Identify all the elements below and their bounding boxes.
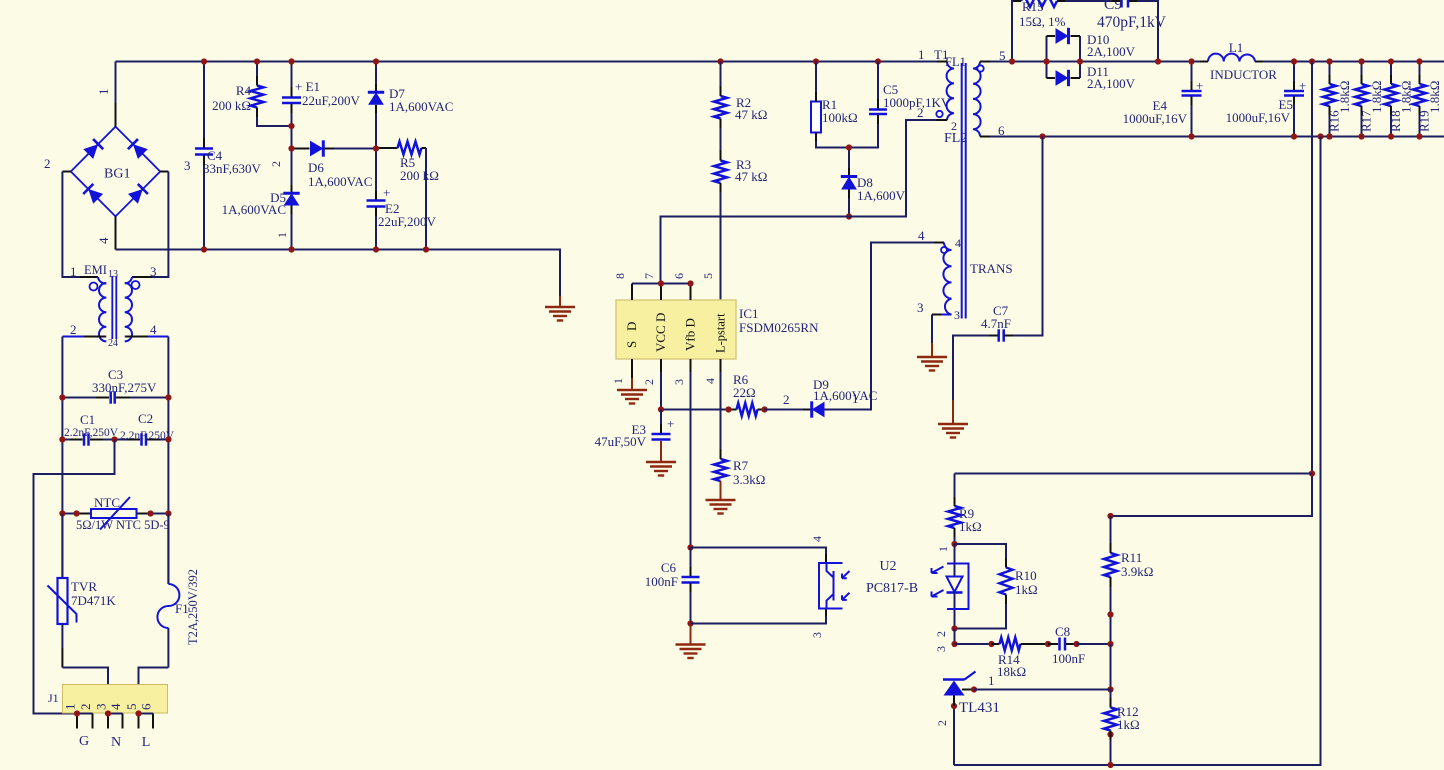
- svg-text:1kΩ: 1kΩ: [1015, 582, 1038, 597]
- svg-text:+: +: [1196, 78, 1203, 93]
- wire to opto collector: [691, 548, 827, 555]
- diode D11: [1047, 77, 1056, 79]
- wire TVR to J1 pin3: [62, 668, 108, 714]
- resistor R10: [1000, 568, 1013, 595]
- svg-text:S D: S D: [624, 322, 639, 348]
- svg-text:1A,600VAC: 1A,600VAC: [389, 99, 453, 114]
- capacitor E3: [660, 410, 662, 434]
- resistor R19: [1419, 62, 1421, 85]
- svg-text:47 kΩ: 47 kΩ: [735, 107, 767, 122]
- svg-text:L: L: [142, 735, 151, 750]
- svg-text:G: G: [79, 734, 89, 749]
- svg-text:1000uF,16V: 1000uF,16V: [1123, 111, 1188, 126]
- svg-text:+: +: [383, 185, 390, 200]
- capacitor C9: [1120, 0, 1123, 8]
- svg-text:1: 1: [936, 546, 950, 552]
- svg-text:1A,600VAC: 1A,600VAC: [813, 388, 877, 403]
- svg-text:TRANS: TRANS: [970, 261, 1013, 276]
- capacitor C3: [62, 397, 109, 399]
- transformer T1 core: [961, 63, 963, 319]
- svg-text:R7: R7: [733, 458, 749, 473]
- primary ground: [559, 296, 561, 307]
- svg-text:R4: R4: [236, 83, 252, 98]
- svg-text:+: +: [1299, 78, 1306, 93]
- svg-text:5: 5: [124, 704, 139, 711]
- svg-text:18kΩ: 18kΩ: [997, 664, 1026, 679]
- capacitor C8: [1048, 643, 1058, 645]
- svg-text:PC817-B: PC817-B: [866, 581, 918, 596]
- svg-text:100nF: 100nF: [1052, 651, 1085, 666]
- svg-text:8: 8: [613, 273, 627, 279]
- svg-text:200 kΩ: 200 kΩ: [212, 98, 251, 113]
- IC1 pin1 ground: [631, 378, 633, 390]
- svg-text:7: 7: [642, 273, 656, 279]
- wire TL431 cathode: [1110, 644, 1112, 690]
- wire F1 to J1 pin5: [139, 668, 169, 714]
- junction dots secondary rails: [1009, 58, 1015, 64]
- svg-text:N: N: [111, 735, 121, 750]
- svg-text:15Ω, 1%: 15Ω, 1%: [1019, 14, 1066, 29]
- svg-text:1.8kΩ: 1.8kΩ: [1427, 81, 1442, 113]
- svg-text:2: 2: [78, 704, 93, 711]
- svg-text:470pF,1kV: 470pF,1kV: [1097, 14, 1167, 31]
- svg-text:EMI: EMI: [84, 263, 107, 277]
- resistor R1: [815, 62, 817, 102]
- optocoupler U2 phototransistor: [825, 554, 827, 563]
- svg-text:R15: R15: [1022, 0, 1044, 14]
- svg-text:+: +: [667, 416, 674, 431]
- capacitor C7: [953, 336, 998, 401]
- svg-text:VCC D: VCC D: [653, 313, 668, 352]
- capacitor C2: [115, 439, 141, 441]
- C6 ground: [690, 625, 692, 645]
- J1 pin group N: [108, 713, 123, 715]
- wire drain net: [661, 120, 945, 284]
- svg-text:3: 3: [672, 379, 686, 385]
- connector J1: [63, 685, 168, 714]
- svg-text:22Ω: 22Ω: [733, 385, 756, 400]
- svg-text:1000uF,16V: 1000uF,16V: [1226, 110, 1291, 125]
- wire IC pin2 vcc: [660, 359, 662, 372]
- svg-text:2.2nF,250V: 2.2nF,250V: [64, 427, 119, 439]
- svg-text:FSDM0265RN: FSDM0265RN: [739, 320, 819, 335]
- wire BG1 to EMI right: [132, 172, 168, 278]
- BG1 pin stubs: [115, 103, 117, 127]
- svg-text:C8: C8: [1055, 624, 1070, 639]
- diode D8: [848, 148, 850, 169]
- wire IC pin3 feedback: [690, 359, 692, 372]
- svg-text:2: 2: [269, 161, 283, 167]
- wire left column: [61, 337, 63, 579]
- IC1 top pin link: [632, 283, 691, 285]
- svg-text:13: 13: [108, 269, 118, 280]
- transformer T1 primary winding FL1: [947, 62, 954, 121]
- resistor R11: [1110, 516, 1112, 553]
- fuse F1: [167, 514, 169, 585]
- C7 ground: [952, 400, 954, 424]
- resistor R5: [376, 147, 398, 149]
- svg-text:C1: C1: [80, 412, 95, 427]
- capacitor E5: [1293, 62, 1295, 91]
- svg-text:100nF: 100nF: [645, 574, 678, 589]
- svg-text:2: 2: [44, 156, 51, 171]
- svg-text:1: 1: [96, 89, 111, 96]
- svg-text:2: 2: [70, 322, 77, 337]
- svg-text:BG1: BG1: [104, 167, 130, 182]
- svg-text:2: 2: [642, 379, 656, 385]
- svg-text:100kΩ: 100kΩ: [822, 110, 858, 125]
- svg-text:6: 6: [672, 273, 686, 279]
- resistor R17: [1361, 62, 1363, 85]
- svg-text:4: 4: [918, 228, 925, 243]
- component pin stubs: [720, 86, 722, 96]
- svg-text:C6: C6: [661, 560, 677, 575]
- svg-text:IC1: IC1: [739, 306, 759, 321]
- wire vcc node: [661, 409, 729, 411]
- varistor TVR: [61, 514, 63, 579]
- svg-text:200 kΩ: 200 kΩ: [400, 168, 439, 183]
- svg-text:47uF,50V: 47uF,50V: [595, 434, 647, 449]
- diode D6: [292, 148, 310, 150]
- wire BG1 to EMI left: [62, 172, 98, 278]
- svg-text:1.8kΩ: 1.8kΩ: [1337, 81, 1352, 113]
- svg-text:D6: D6: [308, 160, 324, 175]
- svg-text:1kΩ: 1kΩ: [959, 519, 982, 534]
- svg-text:1: 1: [918, 47, 925, 62]
- svg-text:2: 2: [935, 720, 949, 726]
- wire R3 to IC pin5: [720, 183, 722, 300]
- wire R9 top: [955, 473, 1313, 475]
- svg-text:4: 4: [96, 237, 111, 244]
- capacitor C1: [62, 439, 82, 441]
- resistor R15: [1021, 0, 1057, 7]
- resistor R12: [1110, 690, 1112, 708]
- svg-text:3: 3: [954, 308, 960, 322]
- svg-text:TL431: TL431: [959, 700, 1000, 716]
- wire earth path: [34, 440, 115, 714]
- svg-text:1: 1: [63, 704, 78, 711]
- wire D9 to aux winding: [825, 243, 945, 410]
- svg-text:1A,600VAC: 1A,600VAC: [222, 202, 286, 217]
- wire to opto emitter: [691, 616, 827, 624]
- capacitor C5: [877, 62, 879, 109]
- resistor R7: [720, 359, 722, 372]
- svg-text:U2: U2: [879, 559, 896, 574]
- svg-text:6: 6: [139, 703, 154, 710]
- wire LED cathode node3: [954, 629, 956, 645]
- wire secondary bottom rail: [980, 136, 1444, 138]
- svg-text:2: 2: [951, 119, 957, 133]
- wire to R10: [955, 544, 1007, 568]
- J1 pin group G: [77, 713, 93, 715]
- resistor R18: [1390, 62, 1392, 85]
- diode D5: [291, 149, 293, 186]
- svg-text:L-pstart: L-pstart: [714, 313, 728, 353]
- svg-text:R11: R11: [1121, 550, 1142, 565]
- resistor R16: [1329, 62, 1331, 85]
- aux winding ground: [931, 315, 933, 344]
- ic U1 FSDM0265RN: [616, 300, 736, 359]
- svg-text:3: 3: [917, 300, 924, 315]
- svg-text:INDUCTOR: INDUCTOR: [1210, 67, 1277, 82]
- svg-text:5: 5: [701, 273, 715, 279]
- E3 ground: [660, 441, 662, 462]
- svg-text:1A,600VAC: 1A,600VAC: [308, 174, 372, 189]
- svg-text:3.3kΩ: 3.3kΩ: [733, 472, 765, 487]
- svg-text:1: 1: [988, 673, 995, 688]
- svg-text:1kΩ: 1kΩ: [1117, 717, 1140, 732]
- svg-text:22uF,200V: 22uF,200V: [378, 214, 436, 229]
- capacitor E1: [291, 62, 293, 97]
- diode D9: [765, 409, 804, 411]
- capacitor C4: [203, 62, 205, 148]
- svg-text:J1: J1: [48, 691, 59, 705]
- capacitor C6: [690, 548, 692, 577]
- svg-text:22uF,200V: 22uF,200V: [302, 93, 360, 108]
- svg-text:2A,100V: 2A,100V: [1087, 76, 1136, 91]
- svg-text:2: 2: [783, 392, 790, 407]
- svg-text:1: 1: [852, 391, 859, 406]
- svg-text:1: 1: [611, 378, 625, 384]
- svg-text:1: 1: [275, 232, 289, 238]
- resistor R6: [729, 409, 737, 411]
- diode D10: [1046, 36, 1048, 78]
- svg-text:2: 2: [934, 631, 948, 637]
- resistor R9: [954, 474, 956, 507]
- svg-text:330nF,275V: 330nF,275V: [92, 380, 157, 395]
- svg-text:4: 4: [108, 703, 123, 710]
- svg-text:+ E1: + E1: [295, 79, 320, 94]
- svg-text:1A,600V: 1A,600V: [857, 188, 906, 203]
- svg-text:NTC: NTC: [94, 495, 120, 510]
- svg-text:R10: R10: [1015, 568, 1037, 583]
- svg-text:33nF,630V: 33nF,630V: [203, 161, 261, 176]
- svg-text:3: 3: [184, 158, 191, 173]
- capacitor E4: [1191, 62, 1193, 91]
- svg-text:2: 2: [917, 105, 924, 120]
- wire right column: [167, 337, 169, 585]
- svg-text:4: 4: [150, 322, 157, 337]
- svg-text:T2A,250V/392: T2A,250V/392: [186, 569, 200, 645]
- svg-text:L1: L1: [1229, 40, 1243, 55]
- svg-text:3: 3: [810, 632, 824, 638]
- svg-text:FL2: FL2: [944, 131, 967, 146]
- diode D7: [375, 62, 377, 85]
- wire V2 from bottom rail: [954, 137, 1321, 766]
- R7 ground: [720, 481, 722, 500]
- shunt regulator TL431: [943, 678, 965, 681]
- wire top primary rail: [115, 62, 117, 104]
- junction dots primary: [201, 58, 207, 64]
- resistor R3: [720, 119, 722, 161]
- svg-text:47 kΩ: 47 kΩ: [735, 169, 767, 184]
- svg-text:7D471K: 7D471K: [71, 593, 116, 608]
- svg-text:4: 4: [703, 378, 717, 384]
- optocoupler U2 LED: [954, 544, 956, 577]
- svg-text:1: 1: [70, 264, 77, 279]
- svg-text:Vfb D: Vfb D: [683, 318, 698, 351]
- J1 pin group L: [139, 713, 154, 715]
- svg-text:4: 4: [810, 536, 824, 542]
- svg-text:TVR: TVR: [71, 579, 97, 594]
- wire V1 from top rail: [1111, 62, 1313, 517]
- svg-text:3: 3: [94, 704, 109, 711]
- svg-text:5Ω/1W NTC 5D-9: 5Ω/1W NTC 5D-9: [76, 518, 170, 532]
- svg-text:3: 3: [150, 264, 157, 279]
- EMI common-mode choke: [62, 277, 106, 341]
- wire snubber left leg: [1012, 1, 1021, 62]
- resistor R4: [256, 62, 258, 86]
- transformer aux winding TRANS: [932, 243, 952, 315]
- svg-text:3.9kΩ: 3.9kΩ: [1121, 564, 1153, 579]
- transformer T1 secondary winding: [973, 62, 981, 137]
- svg-text:FL1: FL1: [945, 55, 966, 69]
- inductor L1: [1208, 54, 1255, 62]
- svg-text:4: 4: [955, 236, 961, 250]
- bridge rectifier BG1: [71, 127, 160, 217]
- wire bottom primary rail: [116, 250, 561, 297]
- svg-text:2A,100V: 2A,100V: [1087, 44, 1136, 59]
- svg-text:24: 24: [108, 338, 118, 349]
- resistor R14: [955, 643, 992, 645]
- svg-text:C2: C2: [138, 411, 153, 426]
- svg-text:4.7nF: 4.7nF: [981, 316, 1011, 331]
- thermistor NTC: [62, 513, 91, 515]
- wire secondary top rail: [980, 61, 1208, 63]
- capacitor E2: [375, 149, 377, 200]
- svg-text:3: 3: [934, 646, 948, 652]
- resistor R2: [720, 62, 722, 97]
